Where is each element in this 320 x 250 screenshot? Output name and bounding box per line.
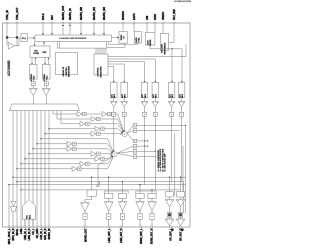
svg-text:DAC: DAC: [26, 214, 29, 219]
svg-text:VOLTAGE: VOLTAGE: [161, 43, 164, 53]
svg-text:LINE_IN_L: LINE_IN_L: [25, 228, 27, 240]
svg-text:STEREO: STEREO: [44, 73, 46, 81]
svg-text:B = MIC BOOST AMP: B = MIC BOOST AMP: [164, 153, 167, 172]
svg-text:REGISTERS: REGISTERS: [69, 65, 71, 77]
svg-text:ADC: ADC: [152, 93, 155, 98]
svg-text:SPDIFO: SPDIFO: [122, 11, 125, 20]
svg-text:SDATA_IN: SDATA_IN: [69, 8, 72, 20]
svg-text:CTRL: CTRL: [139, 37, 141, 43]
svg-text:REFERENCE: REFERENCE: [164, 42, 166, 54]
svg-text:MIC1_JACK_L: MIC1_JACK_L: [8, 228, 11, 244]
svg-text:SURR_OUT_R: SURR_OUT_R: [151, 228, 153, 244]
svg-text:CORE: CORE: [33, 53, 39, 55]
svg-text:AUX_IN_L: AUX_IN_L: [40, 228, 43, 240]
svg-text:MONO_IN: MONO_IN: [49, 228, 51, 239]
svg-text:ADC: ADC: [121, 93, 124, 98]
svg-text:MIC1_IN_R: MIC1_IN_R: [13, 228, 15, 240]
svg-text:CONTROL: CONTROL: [98, 66, 100, 76]
svg-text:DIG: DIG: [34, 50, 38, 52]
svg-text:AUX_IN_R: AUX_IN_R: [44, 228, 47, 240]
svg-text:SURR_OUT_L: SURR_OUT_L: [141, 228, 143, 244]
svg-text:BCLK: BCLK: [42, 13, 45, 20]
svg-text:CONTROL: CONTROL: [66, 66, 68, 76]
svg-text:AD1988B: AD1988B: [7, 60, 11, 76]
svg-text:ADC: ADC: [111, 93, 114, 98]
svg-text:JS0: JS0: [146, 15, 149, 20]
svg-text:ARRAY OF: ARRAY OF: [62, 66, 65, 77]
svg-text:RST: RST: [51, 15, 54, 20]
svg-text:SDATA_IN0: SDATA_IN0: [80, 6, 83, 20]
svg-text:XTAL_IN: XTAL_IN: [6, 10, 9, 20]
svg-text:CD_L: CD_L: [33, 228, 35, 235]
svg-text:DAC: DAC: [46, 75, 49, 80]
svg-text:MIC2L: MIC2L: [17, 228, 19, 235]
svg-text:SPDIF: SPDIF: [121, 34, 123, 40]
svg-text:ADC: ADC: [178, 93, 181, 98]
svg-text:HP_OUT_R: HP_OUT_R: [180, 228, 182, 241]
svg-text:ADC: ADC: [168, 93, 171, 98]
svg-text:JACK: JACK: [146, 40, 149, 46]
svg-text:GPIO: GPIO: [154, 14, 157, 20]
svg-text:SENSE: SENSE: [150, 39, 152, 46]
svg-text:HD AUDIO LINK INTERFACE: HD AUDIO LINK INTERFACE: [60, 37, 88, 40]
svg-text:XTAL_OUT: XTAL_OUT: [16, 7, 19, 20]
svg-text:LINE_OUT_L: LINE_OUT_L: [109, 228, 111, 243]
svg-text:REGISTERS: REGISTERS: [101, 66, 103, 78]
svg-text:AD1988A/AD1988B: AD1988A/AD1988B: [174, 0, 191, 3]
svg-text:STEREO: STEREO: [31, 73, 33, 81]
svg-text:SDATA_IN2: SDATA_IN2: [103, 6, 106, 20]
svg-text:DAC: DAC: [33, 75, 36, 80]
svg-text:SDATA_IN1: SDATA_IN1: [93, 6, 96, 20]
svg-text:SDATA_OUT: SDATA_OUT: [62, 5, 65, 20]
svg-text:MONO_OUT: MONO_OUT: [85, 228, 87, 242]
svg-text:HP_OUT_L: HP_OUT_L: [170, 228, 172, 241]
svg-text:EAPD: EAPD: [133, 13, 136, 20]
svg-text:ADC: ADC: [141, 93, 144, 98]
svg-text:LINE_IN_R: LINE_IN_R: [29, 228, 31, 240]
svg-text:VREFO: VREFO: [162, 12, 165, 20]
svg-text:CD_GND: CD_GND: [37, 228, 39, 238]
svg-text:LINE_OUT_R: LINE_OUT_R: [121, 228, 123, 243]
svg-text:FILT_REF: FILT_REF: [173, 8, 176, 20]
svg-text:LINE: LINE: [21, 228, 23, 234]
